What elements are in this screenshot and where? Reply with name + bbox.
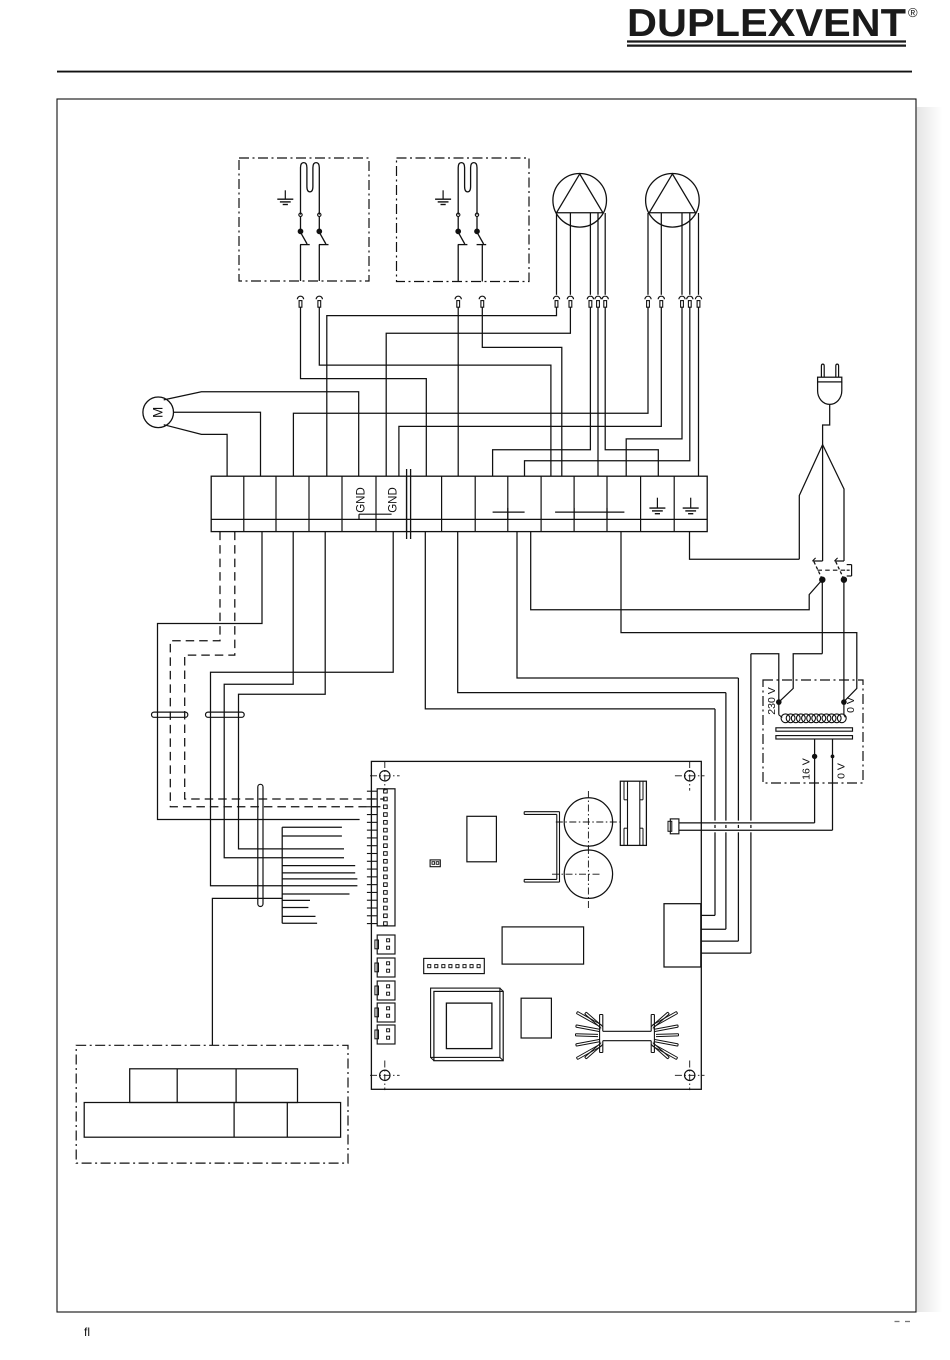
heating element (heater E1) xyxy=(301,163,320,215)
harness wire 7 xyxy=(282,899,310,901)
wire terminal10 to mains switch xyxy=(531,532,822,610)
harness wire 2 xyxy=(282,835,342,837)
PCB outline xyxy=(371,761,701,1089)
link terminals 11-13 xyxy=(555,511,624,513)
logo double underline xyxy=(627,40,906,42)
connector pair X12 xyxy=(679,296,685,299)
switch pole A blade xyxy=(814,562,822,579)
secondary 0V lead xyxy=(832,739,834,830)
PCB connector J2 xyxy=(377,958,395,977)
PCB jumper xyxy=(430,860,440,867)
primary winding lead hooks xyxy=(779,715,782,718)
connector pair X13 xyxy=(687,296,693,299)
PCB IC U4 xyxy=(521,998,551,1038)
switch pole A output xyxy=(821,580,823,654)
capacitor C2 axis xyxy=(552,873,602,875)
primary winding xyxy=(781,714,790,723)
PCB connector J3 xyxy=(377,981,395,1000)
motor wire to terminal 2 xyxy=(174,412,261,476)
wire earth terminal15 to plug xyxy=(690,532,800,560)
harness bus xyxy=(281,827,283,923)
PCB connector J4 xyxy=(377,1003,395,1022)
wire terminal1 to display (dashed) b xyxy=(170,532,384,807)
harness wire 6 xyxy=(282,893,349,895)
ferrite sleeve right bundle xyxy=(206,712,245,717)
border shadow xyxy=(917,107,943,1312)
wire terminal4 to header xyxy=(239,532,345,849)
wire fan V2 lead1 to terminal 3 xyxy=(293,307,648,476)
motor M1 circle xyxy=(143,397,174,428)
harness wire 10 xyxy=(282,922,317,924)
motor wire to terminal 1 xyxy=(164,425,227,477)
PCB mounting hole BL xyxy=(380,1070,390,1080)
wire 0V to PCB plug xyxy=(679,829,833,831)
fan V1 lead 3 xyxy=(589,213,591,295)
earth symbol terminal 15 xyxy=(690,498,692,508)
fan V1 lead 1 xyxy=(556,213,558,295)
PCB IC U2 xyxy=(467,816,497,862)
wire terminal8 to PCB connector xyxy=(458,532,726,693)
terminal strip body xyxy=(211,476,707,531)
earth symbol terminal 14 xyxy=(656,498,658,508)
connector pair X7 xyxy=(587,296,593,299)
node 16V dot xyxy=(812,754,816,758)
PCB 18-pin header X5 xyxy=(377,789,395,926)
GND terminals link xyxy=(359,513,392,515)
PCB mounting hole TR xyxy=(685,771,695,781)
PCB power connector X7 xyxy=(664,904,701,967)
motor wire to GND terminal xyxy=(164,392,359,476)
ground symbol (heater E1) xyxy=(284,190,286,199)
svg-text:16 V: 16 V xyxy=(801,758,813,780)
thermal cut-out contact (heater E1) xyxy=(318,213,321,216)
fan motor circle (fan V2) xyxy=(646,174,700,228)
harness wire 1 xyxy=(282,826,342,828)
svg-text:®: ® xyxy=(908,5,918,20)
switch actuator bracket xyxy=(847,564,852,566)
wire fan V1 lead5 to earth terminal xyxy=(605,307,658,476)
wire heater E1 pole2 to terminal 11 xyxy=(319,307,551,476)
capacitor C2 xyxy=(564,850,612,898)
display cable riser xyxy=(212,898,282,1045)
connector pair X8 xyxy=(595,296,601,299)
wire fan V1 lead3 to terminal 9 xyxy=(493,307,591,476)
transformer dash-dot box xyxy=(763,680,863,783)
primary feed stubs xyxy=(778,702,780,715)
thermal cut-out contact (heater E2) xyxy=(457,213,460,216)
wire fan V1 lead2 to terminal GND xyxy=(386,307,570,476)
harness wire 3 xyxy=(282,865,355,867)
node 0V dot xyxy=(842,700,847,705)
cord split centre xyxy=(822,445,824,561)
display panel upper row xyxy=(130,1069,298,1103)
switch pole B junction dot xyxy=(841,577,846,582)
switch pole A junction dot xyxy=(820,577,825,582)
footer dashes xyxy=(895,1321,900,1323)
connector pair X3 xyxy=(455,296,461,299)
svg-text:230 V: 230 V xyxy=(766,687,778,714)
fan V1 lead 4 xyxy=(597,213,599,295)
display panel lower row xyxy=(84,1103,340,1138)
PCB mounting hole TL xyxy=(380,771,390,781)
wire fan V2 lead3 to terminal 13 xyxy=(626,307,682,476)
svg-text:0 V: 0 V xyxy=(845,697,857,713)
harness wire 4 xyxy=(282,872,355,874)
fan V2 lead 4 xyxy=(689,213,691,295)
fan V2 lead 1 xyxy=(647,213,649,295)
connector pair X1 xyxy=(297,296,303,299)
connector pair X9 xyxy=(602,296,608,299)
svg-text:GND: GND xyxy=(388,487,400,513)
wire 16V to PCB plug xyxy=(679,822,815,824)
fan V2 lead 2 xyxy=(660,213,662,295)
mains plug body xyxy=(818,377,842,382)
PCB connector J1 xyxy=(377,935,395,954)
terminal separators xyxy=(243,476,245,531)
connector pair X10 xyxy=(645,296,651,299)
terminal strip lower rail line xyxy=(211,518,707,520)
connector pair X2 xyxy=(316,296,322,299)
svg-text:GND: GND xyxy=(356,487,368,513)
mains plug prongs xyxy=(821,364,824,377)
svg-text:0 V: 0 V xyxy=(836,763,848,779)
wire fan V2 lead5 to earth terminal xyxy=(698,307,700,476)
secondary 16V lead xyxy=(814,739,816,823)
PCB IC U3 xyxy=(502,927,583,964)
capacitor clamp bracket xyxy=(524,811,559,813)
connector pair X6 xyxy=(567,296,573,299)
heater enclosure dash-dot box (heater E1) xyxy=(239,158,369,281)
heatsink xyxy=(599,1015,601,1053)
switch pole B output xyxy=(843,580,845,701)
wire terminal1 to display (dashed) a xyxy=(185,532,385,799)
cord split right xyxy=(823,445,844,561)
cord split left (earth) xyxy=(799,445,822,560)
svg-text:fl: fl xyxy=(84,1325,90,1339)
svg-text:DUPLEXVENT: DUPLEXVENT xyxy=(627,2,906,45)
node 230V dot xyxy=(777,700,782,705)
wire fan V2 lead4 to terminal 10 xyxy=(525,307,690,476)
page top rule xyxy=(57,71,912,73)
fan triangle (fan V1) xyxy=(557,174,603,213)
heating element (heater E2) xyxy=(458,163,477,215)
mains cord xyxy=(823,404,830,444)
wire terminal3 to header xyxy=(224,532,344,858)
ground symbol (heater E2) xyxy=(442,190,444,199)
harness wire 9 xyxy=(282,915,315,917)
PCB low-voltage plug X6 xyxy=(670,819,679,834)
wire fan V1 lead4 to terminal 12 xyxy=(597,307,599,476)
wire terminal10 to PCB connector xyxy=(517,532,738,678)
harness wire 5 xyxy=(282,878,357,880)
switch pole B fixed contact xyxy=(835,560,845,562)
wire heater E2 pole1 to terminal 8 xyxy=(457,307,459,476)
switch pole B blade xyxy=(836,562,844,579)
fan V1 lead 5 xyxy=(604,213,606,295)
wire heater E2 pole2 to terminal 11 xyxy=(482,307,562,476)
connector pair X11 xyxy=(658,296,664,299)
wire terminal13 to transformer 0V xyxy=(621,532,857,701)
fan motor circle (fan V1) xyxy=(553,174,607,228)
switch pole A to transformer 230V xyxy=(780,654,823,702)
fan V1 lead 2 xyxy=(569,213,571,295)
relay K1 xyxy=(620,781,646,845)
PCB QFP U1 xyxy=(434,991,503,1060)
capacitor C1 axis xyxy=(556,821,621,823)
switch pole A fixed contact xyxy=(813,560,823,562)
heater enclosure dash-dot box (heater E2) xyxy=(397,158,530,282)
terminal strip divider bar xyxy=(406,469,408,539)
connector pair X14 xyxy=(695,296,701,299)
display panel dash-dot box xyxy=(76,1045,348,1163)
node secondary 0V dot xyxy=(831,755,834,758)
fan triangle (fan V2) xyxy=(649,174,695,213)
wire terminal6 to header xyxy=(211,532,394,886)
wire fan V2 lead2 to terminal GND xyxy=(399,307,661,476)
transformer core xyxy=(776,728,853,731)
svg-text:M: M xyxy=(151,407,166,418)
wire terminal2 to header xyxy=(158,532,360,820)
switch coupling (dashed) xyxy=(818,569,848,571)
wire fan V1 lead1 to terminal 4 xyxy=(327,307,557,476)
wire 230V to PCB connector xyxy=(751,654,779,702)
connector pair X4 xyxy=(479,296,485,299)
harness wire 8 xyxy=(282,907,308,909)
link terminals 9-10 xyxy=(493,511,525,513)
ferrite sleeve left bundle xyxy=(152,712,188,717)
ferrite sleeve harness bundle xyxy=(258,784,263,906)
fan V2 lead 5 xyxy=(698,213,700,295)
PCB connector J5 xyxy=(377,1025,395,1044)
capacitor C1 xyxy=(564,798,612,846)
thermal cut-out contact (heater E1) xyxy=(299,213,302,216)
wire heater E1 pole1 to terminal 7 xyxy=(301,307,427,476)
connector pair X5 xyxy=(553,296,559,299)
PCB DIP connector xyxy=(424,958,485,973)
fan V2 lead 3 xyxy=(681,213,683,295)
wire terminal7 to PCB connector xyxy=(425,532,715,709)
thermal cut-out contact (heater E2) xyxy=(475,213,478,216)
PCB mounting hole BR xyxy=(685,1070,695,1080)
